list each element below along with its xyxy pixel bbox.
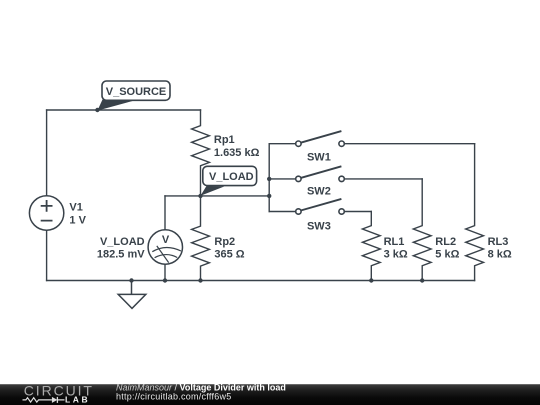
net flag V_LOAD xyxy=(201,166,257,195)
ground xyxy=(118,281,146,309)
svg-text:RL2: RL2 xyxy=(435,236,456,248)
junction node V_LOAD (Rp1/Rp2) xyxy=(198,194,202,198)
svg-text:5 kΩ: 5 kΩ xyxy=(435,248,459,260)
svg-text:1.635 kΩ: 1.635 kΩ xyxy=(214,147,260,159)
switch SW1 xyxy=(296,131,345,146)
svg-text:SW3: SW3 xyxy=(307,221,331,233)
svg-text:http://circuitlab.com/cfff6w5: http://circuitlab.com/cfff6w5 xyxy=(116,392,231,402)
resistor Rp2 xyxy=(192,196,210,281)
junction node Rp2 bottom xyxy=(198,278,202,282)
svg-text:V1: V1 xyxy=(69,202,82,214)
svg-text:V_LOAD: V_LOAD xyxy=(209,171,254,183)
wire left vertical V1 bottom xyxy=(46,230,48,280)
resistor RL1 xyxy=(362,212,380,281)
label RL3 value xyxy=(488,236,512,260)
svg-text:V: V xyxy=(162,234,170,246)
resistor RL2 xyxy=(413,179,431,281)
wire SW2 left xyxy=(269,178,296,180)
voltage source V1 xyxy=(29,196,63,230)
label V1 value xyxy=(69,202,86,227)
svg-text:RL1: RL1 xyxy=(384,236,405,248)
junction node bus/V_LOAD wire xyxy=(267,194,271,198)
label Rp2 value xyxy=(214,236,244,261)
label voltmeter reading xyxy=(97,236,145,261)
wire switch bus vertical xyxy=(268,144,270,212)
svg-text:8 kΩ: 8 kΩ xyxy=(488,248,512,260)
svg-text:V_LOAD: V_LOAD xyxy=(100,236,145,248)
svg-text:LAB: LAB xyxy=(65,394,90,404)
label Rp1 value xyxy=(214,134,260,159)
label RL2 value xyxy=(435,236,459,260)
wire SW1 right to RL3 xyxy=(344,143,474,145)
junction node RL2 bottom xyxy=(420,278,424,282)
wire SW2 right to RL2 xyxy=(344,178,422,180)
svg-text:RL3: RL3 xyxy=(488,236,509,248)
wire SW1 left xyxy=(269,143,296,145)
junction node ground tap xyxy=(129,278,133,282)
junction node voltmeter bottom xyxy=(163,278,167,282)
junction node RL1 bottom xyxy=(369,278,373,282)
voltmeter V_LOAD meter xyxy=(148,230,182,264)
svg-text:Rp2: Rp2 xyxy=(214,236,235,248)
svg-text:SW2: SW2 xyxy=(307,186,331,198)
wire left vertical V1 top xyxy=(46,110,48,196)
svg-text:3 kΩ: 3 kΩ xyxy=(384,248,408,260)
wire bottom ground rail xyxy=(47,280,475,282)
svg-text:182.5 mV: 182.5 mV xyxy=(97,248,145,260)
junction node bus/SW2 xyxy=(267,177,271,181)
wire node V_LOAD horizontal xyxy=(165,195,269,197)
switch SW3 xyxy=(296,199,345,214)
svg-text:Rp1: Rp1 xyxy=(214,134,235,146)
net flag V_SOURCE xyxy=(97,81,170,111)
wire SW3 left xyxy=(269,211,296,213)
wire voltmeter top lead xyxy=(164,196,166,230)
svg-text:1 V: 1 V xyxy=(69,215,86,227)
wire voltmeter bottom lead xyxy=(164,264,166,280)
label RL1 value xyxy=(384,236,408,260)
wire SW3 right to RL1 xyxy=(344,211,371,213)
switch SW2 xyxy=(296,166,345,181)
resistor RL3 xyxy=(466,144,484,281)
svg-text:365 Ω: 365 Ω xyxy=(214,248,244,260)
svg-text:SW1: SW1 xyxy=(307,152,331,164)
svg-text:V_SOURCE: V_SOURCE xyxy=(106,86,167,98)
logo CircuitLab wordmark xyxy=(23,383,94,405)
junction node at V_SOURCE tap xyxy=(95,108,99,112)
wire top from V1 to Rp1 xyxy=(47,109,201,111)
resistor Rp1 xyxy=(192,110,210,196)
